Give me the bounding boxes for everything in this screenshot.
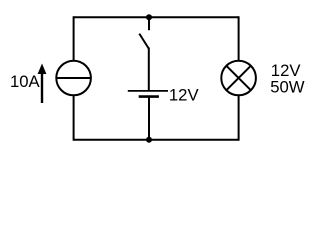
svg-text:50W: 50W xyxy=(270,78,305,97)
lamp L1 (circle with X) xyxy=(221,61,256,96)
wire middle top stub (junction to switch) xyxy=(148,17,150,30)
wire left upper (top corner to current source) xyxy=(73,16,75,61)
current source I1 (circle with horizontal bar) xyxy=(56,61,91,96)
wire top (left corner to right corner) xyxy=(74,16,239,18)
battery V1 negative plate (short thick) xyxy=(139,95,159,98)
battery V1 positive plate (long) xyxy=(128,90,168,92)
current direction arrow (up) xyxy=(38,64,47,104)
wire middle bottom (battery to junction) xyxy=(148,97,150,140)
wire left lower (current source to bottom corner) xyxy=(73,95,75,141)
svg-text:10A: 10A xyxy=(10,72,41,91)
wire middle (switch to battery) xyxy=(148,48,150,91)
wire right upper (top corner to lamp) xyxy=(238,16,240,61)
node junction top xyxy=(146,14,152,20)
switch S1 (open blade) xyxy=(139,34,148,49)
svg-text:12V: 12V xyxy=(169,86,200,105)
node junction bottom xyxy=(146,137,152,143)
wire bottom (left corner to right corner) xyxy=(74,139,239,141)
wire right lower (lamp to bottom corner) xyxy=(238,95,240,141)
